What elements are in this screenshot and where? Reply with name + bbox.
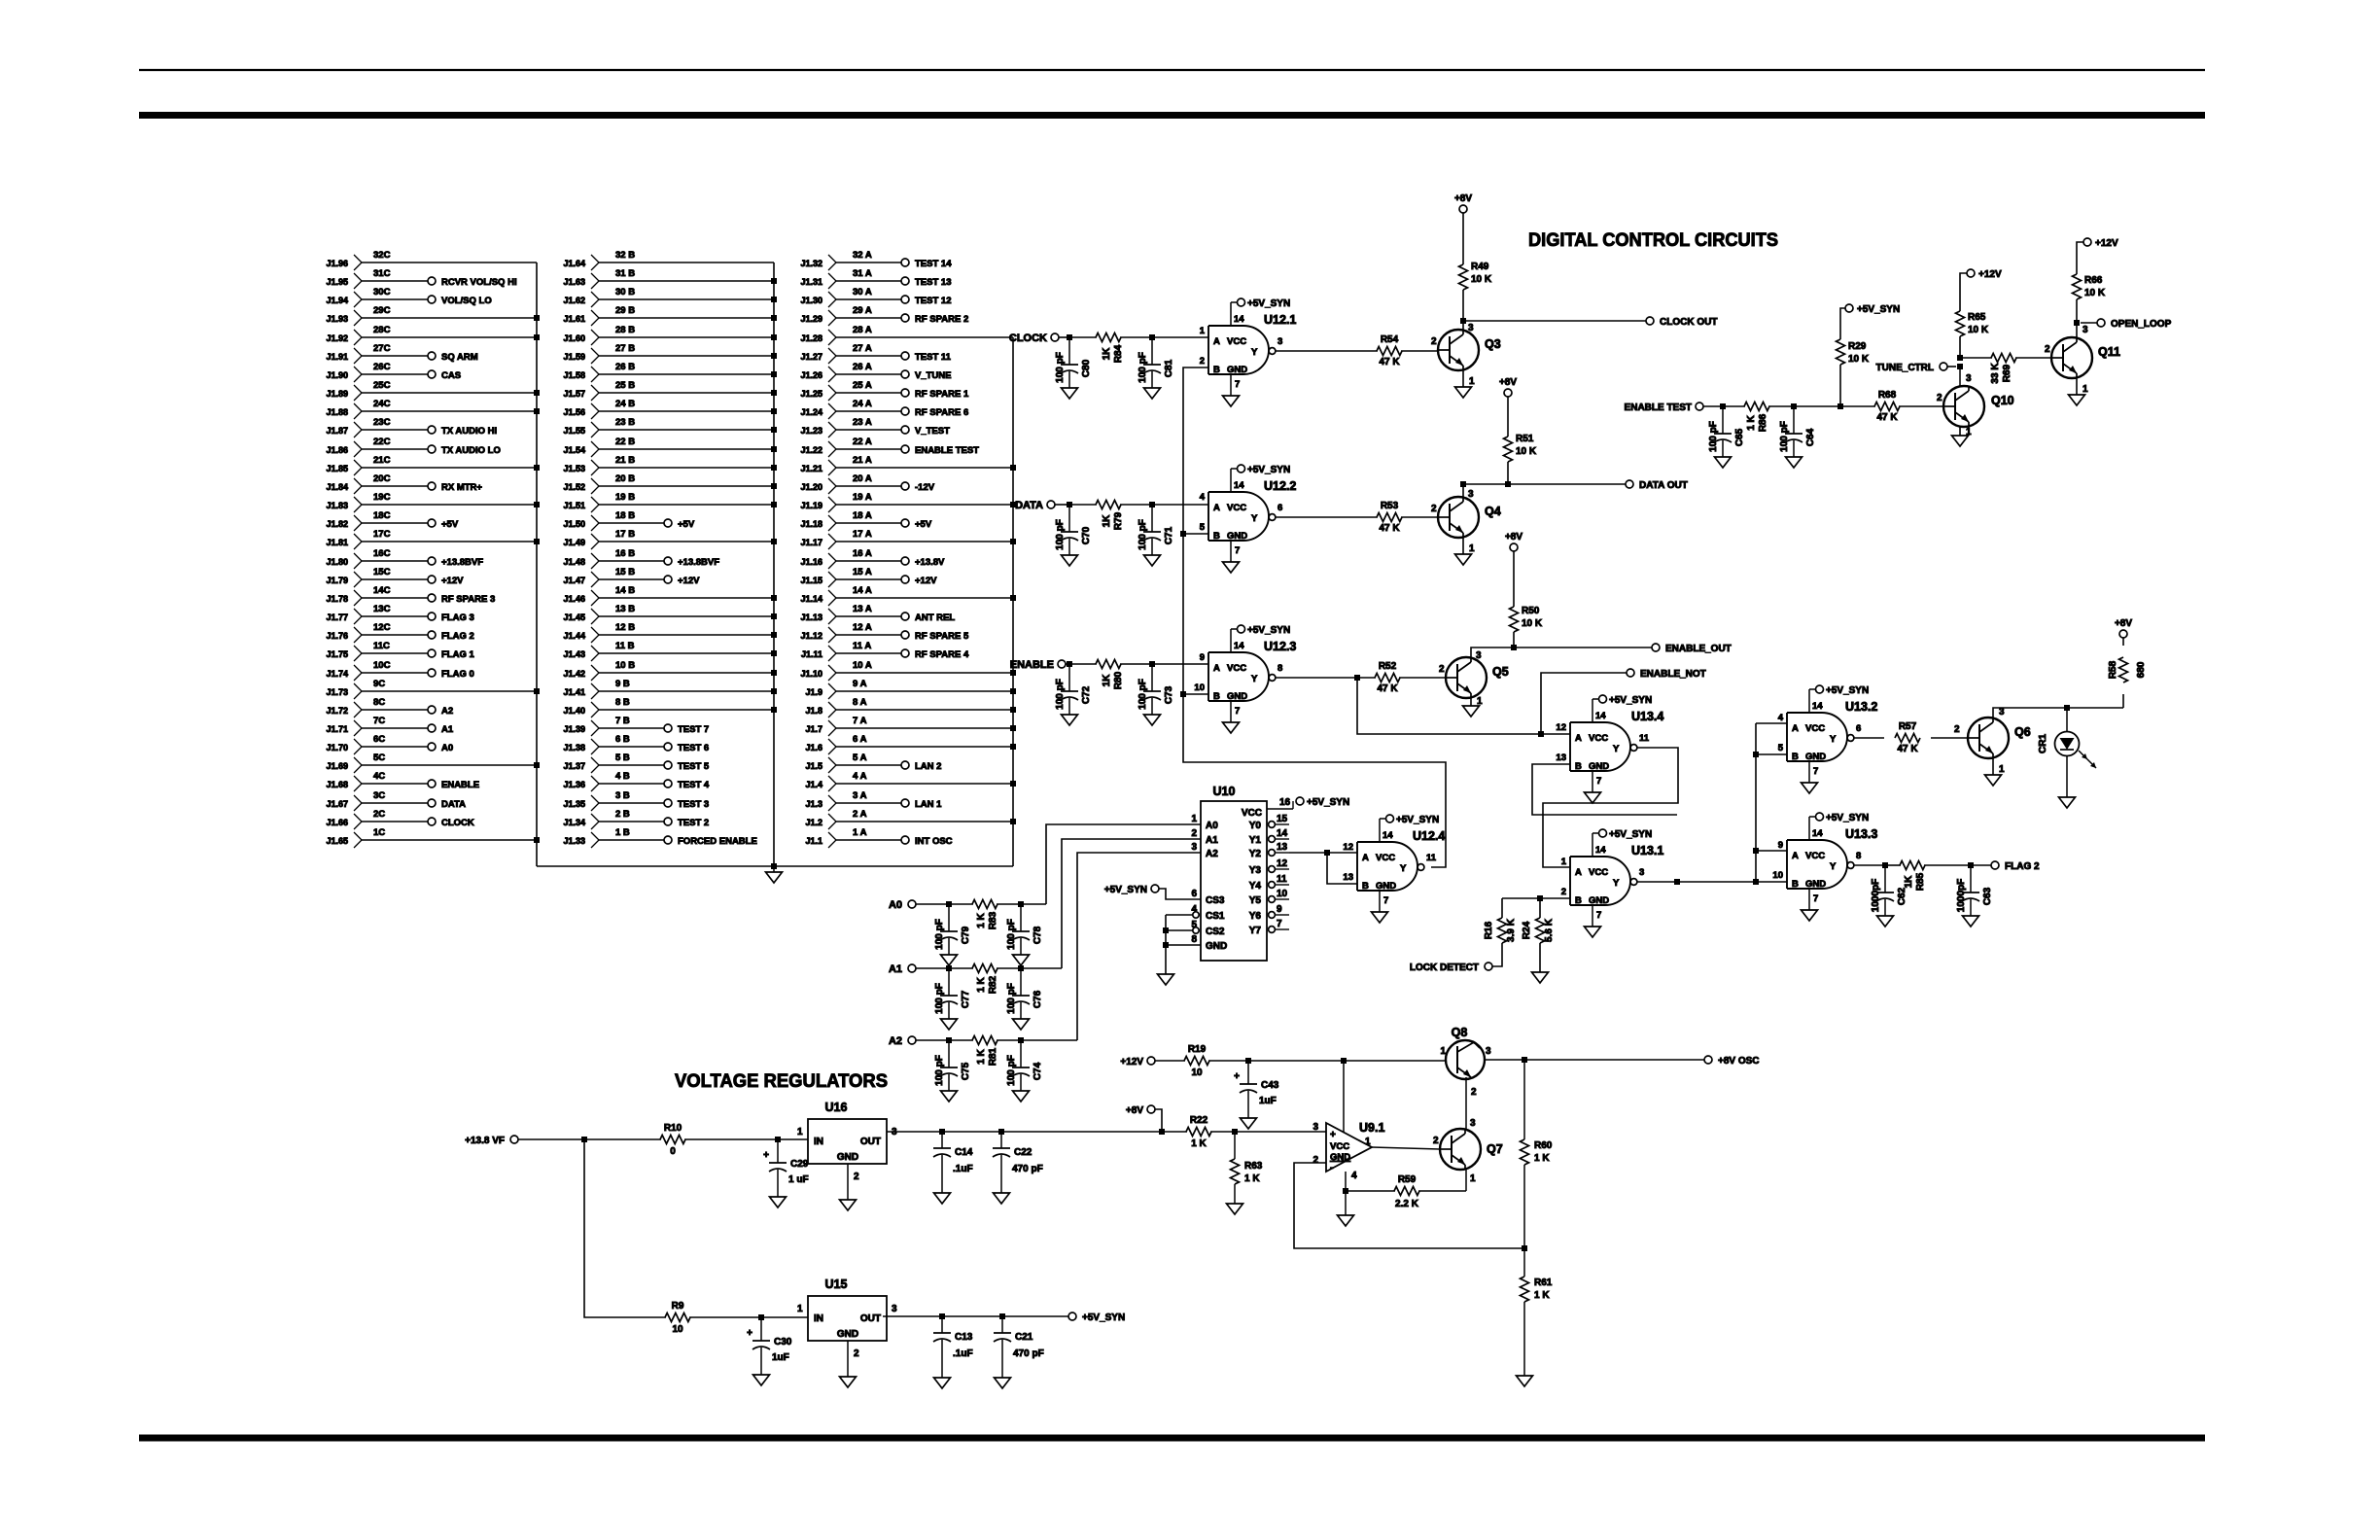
svg-text:C13: C13 <box>955 1332 973 1343</box>
svg-text:7: 7 <box>1235 379 1240 390</box>
svg-text:21 B: 21 B <box>615 455 635 466</box>
svg-text:23 A: 23 A <box>853 417 872 428</box>
svg-text:Y3: Y3 <box>1249 865 1262 876</box>
svg-text:TEST 14: TEST 14 <box>915 259 952 269</box>
svg-text:100 pF: 100 pF <box>934 919 945 950</box>
svg-text:VCC: VCC <box>1589 867 1608 878</box>
svg-text:100 pF: 100 pF <box>934 983 945 1014</box>
svg-text:1C: 1C <box>373 827 385 838</box>
svg-text:1: 1 <box>1365 1137 1371 1147</box>
svg-text:23C: 23C <box>373 417 391 428</box>
svg-text:R57: R57 <box>1899 721 1917 732</box>
svg-text:R80: R80 <box>1113 671 1124 689</box>
svg-text:1: 1 <box>1200 326 1206 336</box>
svg-text:100 pF: 100 pF <box>934 1055 945 1086</box>
svg-text:J1.4: J1.4 <box>805 780 822 789</box>
svg-text:47 K: 47 K <box>1876 412 1898 423</box>
svg-text:13: 13 <box>1277 842 1288 853</box>
svg-text:J1.76: J1.76 <box>326 631 348 641</box>
svg-text:32 B: 32 B <box>615 250 635 261</box>
svg-text:29 B: 29 B <box>615 305 635 316</box>
svg-text:3: 3 <box>2082 325 2088 335</box>
svg-text:ENABLE TEST: ENABLE TEST <box>915 445 979 456</box>
svg-text:IN: IN <box>814 1313 823 1324</box>
svg-text:J1.93: J1.93 <box>326 314 348 324</box>
svg-text:31C: 31C <box>373 268 391 279</box>
svg-text:4C: 4C <box>373 771 385 782</box>
svg-text:J1.71: J1.71 <box>326 724 348 734</box>
svg-text:4 B: 4 B <box>615 771 630 782</box>
svg-text:31 B: 31 B <box>615 268 635 279</box>
svg-text:B: B <box>1362 881 1369 892</box>
svg-text:J1.26: J1.26 <box>800 370 822 380</box>
svg-text:12 B: 12 B <box>615 622 635 633</box>
svg-text:14: 14 <box>1234 314 1244 325</box>
svg-text:19C: 19C <box>373 492 391 503</box>
svg-text:+: + <box>747 1328 752 1339</box>
svg-text:J1.19: J1.19 <box>800 501 822 510</box>
svg-text:+5V_SYN: +5V_SYN <box>1247 298 1290 309</box>
svg-text:Q4: Q4 <box>1485 505 1501 518</box>
svg-text:J1.44: J1.44 <box>563 631 585 641</box>
svg-text:TEST 12: TEST 12 <box>915 296 952 306</box>
svg-text:J1.83: J1.83 <box>326 501 348 510</box>
svg-text:J1.8: J1.8 <box>805 706 822 716</box>
svg-text:GND: GND <box>1376 881 1396 892</box>
svg-text:11 A: 11 A <box>853 641 871 651</box>
svg-text:8 B: 8 B <box>615 697 630 708</box>
svg-text:J1.81: J1.81 <box>326 538 348 547</box>
svg-text:3: 3 <box>1470 1118 1476 1129</box>
svg-text:30 B: 30 B <box>615 287 635 297</box>
svg-text:C74: C74 <box>1032 1062 1043 1080</box>
svg-text:4: 4 <box>1778 713 1784 723</box>
svg-text:9C: 9C <box>373 679 385 689</box>
svg-text:13 A: 13 A <box>853 604 872 614</box>
svg-text:Q11: Q11 <box>2098 345 2120 359</box>
svg-text:J1.55: J1.55 <box>563 426 585 436</box>
svg-text:TEST 6: TEST 6 <box>678 743 709 753</box>
svg-text:ENABLE: ENABLE <box>441 780 479 790</box>
svg-text:11: 11 <box>1639 733 1650 744</box>
svg-text:J1.29: J1.29 <box>800 314 822 324</box>
svg-text:J1.22: J1.22 <box>800 445 822 455</box>
svg-text:J1.51: J1.51 <box>563 501 585 510</box>
svg-text:J1.85: J1.85 <box>326 464 348 473</box>
svg-text:470 pF: 470 pF <box>1012 1164 1043 1174</box>
svg-text:B: B <box>1575 761 1582 772</box>
svg-text:3: 3 <box>1191 842 1197 853</box>
svg-text:3: 3 <box>1999 707 2005 717</box>
svg-text:J1.58: J1.58 <box>563 370 585 380</box>
svg-text:+5V_SYN: +5V_SYN <box>1307 797 1349 808</box>
svg-text:R84: R84 <box>1113 344 1124 363</box>
svg-text:A: A <box>1792 723 1799 734</box>
svg-text:2: 2 <box>2045 344 2050 355</box>
svg-text:32 A: 32 A <box>853 250 872 261</box>
svg-text:R53: R53 <box>1381 501 1399 511</box>
svg-text:J1.13: J1.13 <box>800 612 822 622</box>
svg-text:1: 1 <box>797 1127 803 1137</box>
svg-text:RX MTR+: RX MTR+ <box>441 482 482 493</box>
svg-text:1 uF: 1 uF <box>788 1174 809 1185</box>
svg-text:26 B: 26 B <box>615 362 635 372</box>
svg-text:7: 7 <box>1383 895 1388 906</box>
svg-text:R51: R51 <box>1516 434 1534 444</box>
svg-text:26 A: 26 A <box>853 362 872 372</box>
svg-text:J1.3: J1.3 <box>805 799 822 809</box>
svg-text:J1.60: J1.60 <box>563 333 585 343</box>
svg-text:11: 11 <box>1426 853 1437 863</box>
svg-text:VCC: VCC <box>1805 851 1825 861</box>
svg-text:C43: C43 <box>1261 1080 1279 1091</box>
svg-text:5: 5 <box>1778 743 1784 753</box>
svg-text:B: B <box>1575 895 1582 906</box>
svg-text:J1.84: J1.84 <box>326 482 348 492</box>
svg-text:Q8: Q8 <box>1452 1026 1468 1039</box>
svg-text:J1.36: J1.36 <box>563 780 585 789</box>
svg-text:10: 10 <box>1772 870 1783 881</box>
svg-text:Q3: Q3 <box>1485 337 1501 351</box>
svg-text:24C: 24C <box>373 399 391 409</box>
svg-text:Q7: Q7 <box>1487 1142 1503 1156</box>
svg-text:J1.90: J1.90 <box>326 370 348 380</box>
svg-text:23 B: 23 B <box>615 417 635 428</box>
svg-text:J1.25: J1.25 <box>800 389 822 399</box>
svg-text:CS2: CS2 <box>1206 927 1225 937</box>
svg-text:16 A: 16 A <box>853 548 872 559</box>
svg-text:R63: R63 <box>1244 1161 1263 1172</box>
svg-text:16: 16 <box>1279 797 1291 808</box>
svg-text:J1.24: J1.24 <box>800 407 822 417</box>
svg-text:100 pF: 100 pF <box>1055 679 1066 710</box>
svg-text:U13.1: U13.1 <box>1631 844 1663 857</box>
svg-text:B: B <box>1792 879 1799 890</box>
svg-text:GND: GND <box>837 1152 858 1163</box>
svg-text:R59: R59 <box>1398 1174 1417 1185</box>
svg-text:12C: 12C <box>373 622 391 633</box>
svg-text:J1.52: J1.52 <box>563 482 585 492</box>
svg-text:J1.33: J1.33 <box>563 836 585 846</box>
svg-text:12: 12 <box>1343 842 1353 853</box>
svg-text:8: 8 <box>1191 934 1197 945</box>
svg-text:3: 3 <box>1468 489 1474 500</box>
svg-text:24 A: 24 A <box>853 399 872 409</box>
svg-text:1K: 1K <box>1904 875 1914 889</box>
svg-text:+13.8V: +13.8V <box>915 557 945 568</box>
svg-text:LOCK DETECT: LOCK DETECT <box>1410 962 1479 973</box>
svg-text:6: 6 <box>1856 723 1861 734</box>
svg-text:Y: Y <box>1400 863 1407 874</box>
svg-text:VOLTAGE REGULATORS: VOLTAGE REGULATORS <box>675 1070 888 1092</box>
svg-text:R61: R61 <box>1534 1277 1553 1288</box>
svg-text:J1.38: J1.38 <box>563 743 585 752</box>
svg-text:2: 2 <box>1431 504 1437 514</box>
svg-text:FLAG 3: FLAG 3 <box>441 612 474 623</box>
svg-text:25C: 25C <box>373 380 391 391</box>
svg-text:J1.37: J1.37 <box>563 761 585 771</box>
svg-text:C71: C71 <box>1164 526 1174 544</box>
svg-text:+8V: +8V <box>2115 618 2132 629</box>
svg-text:J1.66: J1.66 <box>326 818 348 827</box>
svg-text:17 A: 17 A <box>853 529 872 540</box>
svg-text:8 A: 8 A <box>853 697 867 708</box>
svg-text:C76: C76 <box>1032 990 1043 1008</box>
svg-text:J1.69: J1.69 <box>326 761 348 771</box>
svg-text:+12V: +12V <box>441 576 464 586</box>
svg-text:3: 3 <box>1966 373 1972 384</box>
svg-text:R10: R10 <box>664 1123 682 1134</box>
svg-text:2: 2 <box>1431 336 1437 347</box>
svg-text:2: 2 <box>1471 1087 1477 1098</box>
svg-text:CAS: CAS <box>441 370 461 381</box>
svg-text:TEST 3: TEST 3 <box>678 799 709 810</box>
svg-text:2: 2 <box>1433 1136 1439 1146</box>
svg-text:2: 2 <box>1191 828 1197 839</box>
svg-text:U13.2: U13.2 <box>1845 700 1877 714</box>
svg-text:C30: C30 <box>774 1337 792 1347</box>
svg-text:19 B: 19 B <box>615 492 635 503</box>
svg-text:J1.77: J1.77 <box>326 612 348 622</box>
svg-text:10: 10 <box>1194 682 1205 693</box>
svg-text:12 A: 12 A <box>853 622 872 633</box>
svg-text:C29: C29 <box>790 1159 809 1170</box>
svg-text:-: - <box>1330 1163 1333 1173</box>
svg-text:J1.67: J1.67 <box>326 799 348 809</box>
svg-text:CLOCK: CLOCK <box>441 818 474 828</box>
svg-text:C14: C14 <box>955 1147 973 1158</box>
svg-text:Y4: Y4 <box>1249 881 1262 892</box>
svg-text:J1.6: J1.6 <box>805 743 822 752</box>
svg-text:+12V: +12V <box>1978 269 2002 280</box>
svg-text:10 B: 10 B <box>615 660 635 671</box>
svg-text:+5V_SYN: +5V_SYN <box>1826 813 1869 823</box>
svg-text:J1.23: J1.23 <box>800 426 822 436</box>
svg-text:A0: A0 <box>441 743 453 753</box>
svg-text:INT OSC: INT OSC <box>915 836 953 847</box>
svg-text:U12.2: U12.2 <box>1264 479 1296 493</box>
svg-text:U9.1: U9.1 <box>1359 1121 1384 1135</box>
svg-text:3: 3 <box>1476 650 1482 661</box>
svg-text:C75: C75 <box>961 1062 971 1080</box>
svg-text:J1.39: J1.39 <box>563 724 585 734</box>
svg-text:J1.72: J1.72 <box>326 706 348 716</box>
svg-text:27C: 27C <box>373 343 391 354</box>
svg-text:1 K: 1 K <box>1244 1173 1260 1184</box>
svg-text:+5V_SYN: +5V_SYN <box>1247 465 1290 475</box>
svg-text:15: 15 <box>1277 814 1288 824</box>
svg-text:VCC: VCC <box>1227 336 1246 347</box>
svg-text:7 A: 7 A <box>853 716 867 726</box>
svg-text:R54: R54 <box>1381 334 1399 345</box>
svg-text:TUNE_CTRL: TUNE_CTRL <box>1876 363 1934 373</box>
svg-text:10 K: 10 K <box>1516 446 1537 457</box>
svg-text:VCC: VCC <box>1589 733 1608 744</box>
svg-text:Y0: Y0 <box>1249 821 1262 831</box>
svg-text:J1.78: J1.78 <box>326 594 348 604</box>
svg-text:14: 14 <box>1595 845 1606 856</box>
svg-text:27 B: 27 B <box>615 343 635 354</box>
svg-text:J1.73: J1.73 <box>326 687 348 697</box>
svg-text:J1.31: J1.31 <box>800 277 822 287</box>
svg-text:5C: 5C <box>373 752 385 763</box>
svg-text:1 K: 1 K <box>1191 1138 1207 1149</box>
svg-text:J1.79: J1.79 <box>326 576 348 585</box>
svg-text:+5V_SYN: +5V_SYN <box>1247 625 1290 636</box>
svg-text:J1.40: J1.40 <box>563 706 585 716</box>
svg-text:14: 14 <box>1234 480 1244 491</box>
svg-text:100 pF: 100 pF <box>1137 352 1148 383</box>
svg-text:J1.87: J1.87 <box>326 426 348 436</box>
svg-text:.1uF: .1uF <box>953 1164 973 1174</box>
svg-text:2: 2 <box>1561 887 1566 897</box>
svg-text:28 B: 28 B <box>615 325 635 335</box>
svg-text:U12.3: U12.3 <box>1264 640 1296 653</box>
svg-text:5.6 K: 5.6 K <box>1544 918 1555 942</box>
svg-text:C62: C62 <box>1897 887 1907 905</box>
svg-text:5: 5 <box>1200 522 1206 533</box>
svg-text:Y: Y <box>1251 347 1258 358</box>
svg-text:31 A: 31 A <box>853 268 872 279</box>
svg-text:100 pF: 100 pF <box>1006 983 1017 1014</box>
svg-text:J1.70: J1.70 <box>326 743 348 752</box>
svg-text:A: A <box>1575 867 1582 878</box>
svg-text:10: 10 <box>1277 889 1288 899</box>
svg-text:J1.68: J1.68 <box>326 780 348 789</box>
svg-text:CS1: CS1 <box>1206 911 1225 922</box>
svg-text:DIGITAL CONTROL CIRCUITS: DIGITAL CONTROL CIRCUITS <box>1528 229 1778 251</box>
svg-text:470 pF: 470 pF <box>1013 1348 1044 1359</box>
svg-text:J1.17: J1.17 <box>800 538 822 547</box>
svg-text:J1.95: J1.95 <box>326 277 348 287</box>
svg-text:J1.65: J1.65 <box>326 836 348 846</box>
svg-text:J1.57: J1.57 <box>563 389 585 399</box>
svg-text:1: 1 <box>1999 764 2005 775</box>
svg-text:1: 1 <box>1469 543 1475 554</box>
svg-text:3: 3 <box>1468 323 1474 333</box>
svg-text:A2: A2 <box>1206 849 1218 859</box>
svg-text:R22: R22 <box>1190 1115 1208 1126</box>
svg-text:14: 14 <box>1812 828 1823 839</box>
svg-text:+12V: +12V <box>1120 1057 1143 1067</box>
svg-text:OUT: OUT <box>860 1313 881 1324</box>
svg-text:+: + <box>763 1150 769 1161</box>
svg-text:21 A: 21 A <box>853 455 872 466</box>
svg-text:1 K: 1 K <box>1746 414 1757 430</box>
svg-text:J1.59: J1.59 <box>563 352 585 362</box>
svg-text:J1.63: J1.63 <box>563 277 585 287</box>
svg-text:30 A: 30 A <box>853 287 872 297</box>
svg-text:22 A: 22 A <box>853 437 872 447</box>
svg-text:Y7: Y7 <box>1249 926 1262 936</box>
svg-text:J1.34: J1.34 <box>563 818 585 827</box>
svg-text:+12V: +12V <box>678 576 700 586</box>
svg-text:RF SPARE 1: RF SPARE 1 <box>915 389 969 400</box>
svg-text:7: 7 <box>1813 893 1818 904</box>
svg-text:100 pF: 100 pF <box>1006 919 1017 950</box>
svg-text:R65: R65 <box>1968 312 1986 323</box>
svg-text:25 B: 25 B <box>615 380 635 391</box>
svg-text:+8V: +8V <box>1126 1105 1143 1116</box>
svg-text:19 A: 19 A <box>853 492 872 503</box>
svg-text:14C: 14C <box>373 585 391 596</box>
svg-text:16C: 16C <box>373 548 391 559</box>
svg-text:TX AUDIO HI: TX AUDIO HI <box>441 426 497 437</box>
svg-text:FLAG 2: FLAG 2 <box>441 631 474 642</box>
svg-text:10 K: 10 K <box>1522 618 1543 629</box>
svg-text:J1.43: J1.43 <box>563 649 585 659</box>
svg-text:J1.45: J1.45 <box>563 612 585 622</box>
svg-text:3: 3 <box>1639 867 1644 878</box>
svg-text:20 A: 20 A <box>853 473 872 484</box>
svg-text:26C: 26C <box>373 362 391 372</box>
svg-text:+8V: +8V <box>1505 532 1522 542</box>
svg-text:R58: R58 <box>2108 660 2118 679</box>
svg-text:RF SPARE 2: RF SPARE 2 <box>915 314 968 325</box>
svg-text:14: 14 <box>1595 711 1606 721</box>
svg-text:ENABLE_OUT: ENABLE_OUT <box>1665 644 1732 654</box>
svg-text:3: 3 <box>892 1304 897 1314</box>
svg-text:J1.48: J1.48 <box>563 557 585 567</box>
svg-text:1: 1 <box>1469 376 1475 387</box>
svg-text:SQ ARM: SQ ARM <box>441 352 478 363</box>
svg-text:J1.18: J1.18 <box>800 519 822 529</box>
svg-text:VCC: VCC <box>1227 503 1246 513</box>
svg-text:ENABLE_NOT: ENABLE_NOT <box>1640 669 1706 680</box>
svg-text:10: 10 <box>672 1324 683 1335</box>
svg-text:RCVR VOL/SQ HI: RCVR VOL/SQ HI <box>441 277 517 288</box>
svg-text:7C: 7C <box>373 716 385 726</box>
svg-text:-12V: -12V <box>915 482 935 493</box>
svg-text:GND: GND <box>1805 752 1826 762</box>
svg-text:100 pF: 100 pF <box>1137 519 1148 550</box>
svg-text:15 B: 15 B <box>615 567 635 577</box>
svg-text:RF SPARE 3: RF SPARE 3 <box>441 594 495 605</box>
svg-text:100 pF: 100 pF <box>1006 1055 1017 1086</box>
svg-text:2: 2 <box>1439 664 1445 675</box>
svg-text:+5V_SYN: +5V_SYN <box>1609 829 1652 840</box>
svg-text:8C: 8C <box>373 697 385 708</box>
svg-text:C22: C22 <box>1014 1147 1032 1158</box>
svg-text:R79: R79 <box>1113 511 1124 530</box>
svg-text:5 B: 5 B <box>615 752 630 763</box>
svg-text:22 B: 22 B <box>615 437 635 447</box>
svg-text:1 K: 1 K <box>1534 1290 1550 1301</box>
svg-text:14 A: 14 A <box>853 585 872 596</box>
svg-text:14: 14 <box>1812 701 1823 712</box>
svg-text:.1uF: .1uF <box>953 1348 973 1359</box>
svg-text:+5V: +5V <box>915 519 932 530</box>
svg-text:GND: GND <box>1330 1152 1350 1163</box>
svg-text:2: 2 <box>854 1348 859 1359</box>
svg-text:A: A <box>1362 853 1369 863</box>
svg-text:C63: C63 <box>1982 887 1993 905</box>
svg-text:Q5: Q5 <box>1492 665 1509 679</box>
svg-text:10 K: 10 K <box>2084 288 2106 298</box>
svg-text:+8V: +8V <box>1454 193 1472 204</box>
svg-text:2.2 K: 2.2 K <box>1395 1199 1419 1209</box>
svg-text:1uF: 1uF <box>1259 1096 1277 1106</box>
svg-text:J1.12: J1.12 <box>800 631 822 641</box>
svg-text:R85: R85 <box>1915 872 1926 891</box>
svg-text:J1.32: J1.32 <box>800 259 822 268</box>
svg-text:27 A: 27 A <box>853 343 872 354</box>
svg-text:6: 6 <box>1277 503 1282 513</box>
svg-text:GND: GND <box>1227 531 1247 542</box>
svg-text:RF SPARE 5: RF SPARE 5 <box>915 631 969 642</box>
svg-text:DATA: DATA <box>441 799 466 810</box>
svg-text:U15: U15 <box>825 1277 848 1291</box>
